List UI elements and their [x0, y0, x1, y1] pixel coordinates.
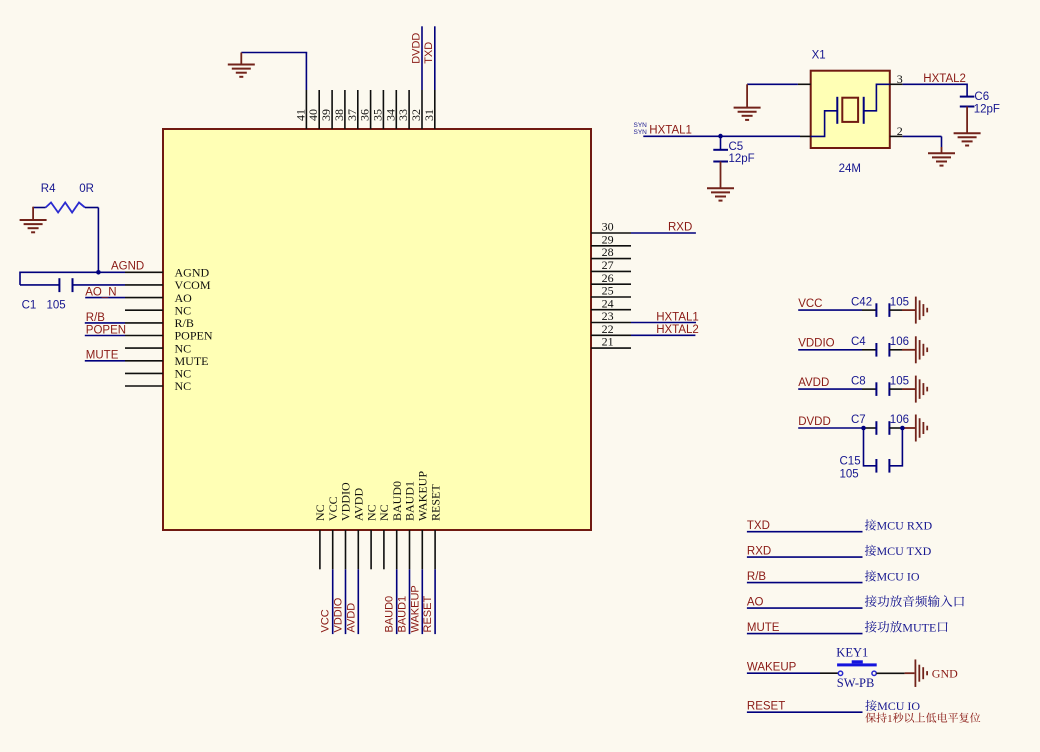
IC U1 body	[163, 129, 591, 530]
wire VCC (bottom)	[332, 569, 334, 634]
ground (crystal pin 2)	[941, 147, 943, 153]
pin 32 (top)	[421, 90, 423, 129]
svg-text:AO: AO	[747, 596, 764, 608]
pin 41 (top)	[305, 90, 307, 129]
svg-text:31: 31	[422, 109, 436, 121]
svg-text:C8: C8	[851, 375, 866, 387]
wire to C5	[720, 136, 722, 150]
pin VCOM (left)	[125, 284, 163, 286]
junction AGND	[96, 270, 101, 275]
svg-text:35: 35	[370, 109, 384, 121]
ground (C5)	[720, 162, 722, 189]
svg-text:C4: C4	[851, 336, 866, 348]
wire pin 2 to ground	[903, 135, 942, 137]
pin WAKEUP (bottom)	[421, 530, 423, 569]
pin 1 stub (crystal top-left)	[798, 83, 811, 85]
capacitor C15	[875, 459, 877, 473]
junction HXTAL1/C5	[718, 134, 723, 139]
wire AVDD to C8	[798, 388, 862, 390]
ground (crystal top-left)	[746, 84, 748, 107]
pin 30 (right)	[591, 232, 631, 234]
pin MUTE (left)	[125, 360, 163, 362]
svg-text:105: 105	[890, 296, 909, 308]
wire C1 to VCOM pin	[73, 284, 126, 286]
wire RXD (list)	[747, 556, 863, 558]
pin 21 (right)	[591, 347, 631, 349]
pin BAUD0 (bottom)	[396, 530, 398, 569]
wire C1 left	[20, 284, 59, 286]
pin AVDD (bottom)	[357, 530, 359, 569]
wire R4 left lead	[33, 207, 46, 209]
wire AVDD (bottom)	[357, 569, 359, 634]
svg-text:MUTE: MUTE	[747, 622, 780, 634]
svg-text:C7: C7	[851, 414, 866, 426]
svg-text:WAKEUP: WAKEUP	[409, 585, 421, 632]
svg-text:C5: C5	[729, 141, 744, 153]
svg-text:106: 106	[890, 336, 909, 348]
wire RESET (list)	[747, 711, 863, 713]
pin 29 (right)	[591, 245, 631, 247]
pin 25 (right)	[591, 296, 631, 298]
ground (R4)	[32, 207, 34, 220]
annotation for AO	[865, 595, 877, 607]
annotation for TXD	[865, 519, 876, 530]
svg-text:DVDD: DVDD	[798, 416, 831, 428]
svg-text:MCU RXD: MCU RXD	[877, 519, 933, 533]
pin NC (left)	[125, 385, 163, 387]
pin 28 (right)	[591, 258, 631, 260]
wire pin32 DVDD	[421, 26, 423, 90]
pin 22 (right)	[591, 334, 631, 336]
svg-text:3: 3	[897, 72, 903, 86]
annotation for MUTE	[865, 621, 877, 633]
pin 26 (right)	[591, 283, 631, 285]
capacitor C5	[713, 149, 728, 151]
svg-text:AVDD: AVDD	[798, 377, 829, 389]
wire MUTE	[85, 360, 125, 362]
wire AGND net	[20, 271, 125, 273]
svg-text:33: 33	[396, 109, 410, 121]
pin 34 (top)	[395, 90, 397, 129]
crystal X1 body	[811, 71, 890, 148]
svg-text:MCU IO: MCU IO	[877, 699, 920, 713]
svg-text:106: 106	[890, 414, 909, 426]
wire WAKEUP (bottom)	[421, 569, 423, 634]
pin NC (bottom)	[319, 530, 321, 569]
wire switch to GND	[876, 672, 904, 674]
svg-text:12pF: 12pF	[974, 104, 1000, 116]
pin 39 (top)	[331, 90, 333, 129]
svg-text:R4: R4	[41, 183, 56, 195]
svg-text:NC: NC	[175, 379, 192, 393]
pin 33 (top)	[408, 90, 410, 129]
svg-text:MCU TXD: MCU TXD	[877, 544, 932, 558]
svg-text:105: 105	[47, 300, 66, 312]
wire RXD	[631, 232, 696, 234]
svg-text:AO_N: AO_N	[85, 287, 116, 299]
pin 31 (top)	[434, 90, 436, 129]
svg-text:HXTAL2: HXTAL2	[656, 324, 699, 336]
wire MUTE (list)	[747, 633, 863, 635]
wire POPEN	[85, 335, 125, 337]
wire VCC to C42	[798, 309, 862, 311]
svg-text:12pF: 12pF	[729, 153, 755, 165]
power ground (C7)	[902, 427, 916, 429]
svg-text:VDDIO: VDDIO	[798, 338, 834, 350]
svg-text:MCU IO: MCU IO	[877, 569, 920, 583]
pin 36 (top)	[370, 90, 372, 129]
ground (C6)	[966, 107, 968, 134]
note hold 1 second	[865, 713, 875, 723]
svg-text:VDDIO: VDDIO	[333, 597, 345, 632]
wire RESET (bottom)	[434, 569, 436, 634]
wire TXD (list)	[747, 531, 863, 533]
wire BAUD0 (bottom)	[396, 569, 398, 634]
pin 38 (top)	[344, 90, 346, 129]
svg-text:2: 2	[897, 124, 903, 138]
pin VDDIO (bottom)	[345, 530, 347, 569]
pin R/B (left)	[125, 322, 163, 324]
svg-text:RESET: RESET	[422, 596, 434, 633]
wire AGND down to C1	[19, 272, 21, 285]
pin AO (left)	[125, 297, 163, 299]
svg-text:C15: C15	[840, 456, 861, 468]
svg-text:HXTAL1: HXTAL1	[649, 125, 692, 137]
annotation for RXD	[865, 545, 876, 556]
capacitor C6	[960, 96, 975, 98]
svg-text:KEY1: KEY1	[836, 645, 868, 659]
pin 24 (right)	[591, 309, 631, 311]
power ground (C42)	[902, 309, 916, 311]
wire R/B	[85, 322, 125, 324]
svg-text:SW-PB: SW-PB	[837, 676, 875, 690]
wire VDDIO (bottom)	[345, 569, 347, 634]
pin VCC (bottom)	[332, 530, 334, 569]
wire R4 right lead down to AGND	[85, 207, 98, 209]
wire HXTAL1 (pin 23)	[631, 322, 696, 324]
pin BAUD1 (bottom)	[409, 530, 411, 569]
svg-text:TXD: TXD	[747, 520, 770, 532]
wire C15 right branch	[889, 428, 902, 466]
svg-text:AVDD: AVDD	[345, 603, 357, 633]
wire HXTAL1 net (crystal)	[643, 135, 800, 137]
crystal X1 element	[842, 98, 858, 122]
pin 27 (right)	[591, 270, 631, 272]
svg-text:MUTE: MUTE	[902, 620, 936, 634]
pin 23 (right)	[591, 322, 631, 324]
svg-text:24M: 24M	[839, 163, 861, 175]
wire AO_N	[85, 297, 125, 299]
svg-text:21: 21	[602, 335, 614, 349]
wire pin41 to ground	[305, 53, 307, 91]
power ground (C8)	[902, 388, 916, 390]
pin RESET (bottom)	[434, 530, 436, 569]
pin POPEN (left)	[125, 335, 163, 337]
pin 2 stub (crystal)	[890, 135, 903, 137]
pin AGND (left)	[125, 271, 163, 273]
svg-text:POPEN: POPEN	[86, 325, 126, 337]
resistor R4	[46, 203, 85, 213]
svg-text:X1: X1	[812, 50, 826, 62]
svg-text:C1: C1	[22, 300, 37, 312]
svg-text:RESET: RESET	[428, 484, 442, 521]
pin NC (bottom)	[383, 530, 385, 569]
capacitor C8	[862, 388, 876, 390]
svg-text:38: 38	[332, 109, 346, 121]
junction DVDD/C15 left	[861, 426, 866, 431]
svg-text:SYN: SYN	[634, 129, 648, 136]
wire BAUD1 (bottom)	[409, 569, 411, 634]
svg-text:40: 40	[306, 109, 320, 121]
svg-text:R/B: R/B	[747, 571, 767, 583]
pin stub crystal bottom-left	[800, 135, 811, 137]
svg-text:AGND: AGND	[111, 261, 144, 273]
svg-text:WAKEUP: WAKEUP	[747, 661, 797, 673]
annotation for R/B	[865, 570, 876, 581]
wire AO (list)	[747, 607, 863, 609]
wire WAKEUP to switch	[747, 672, 820, 674]
power ground (C4)	[902, 349, 916, 351]
svg-text:VCC: VCC	[320, 609, 332, 632]
pin 35 (top)	[382, 90, 384, 129]
svg-text:105: 105	[890, 375, 909, 387]
ground (top-left, pin 41)	[240, 53, 242, 65]
capacitor C4	[862, 349, 876, 351]
annotation for RESET	[865, 700, 876, 711]
svg-text:C42: C42	[851, 296, 872, 308]
wire DVDD to C7	[798, 427, 862, 429]
svg-text:R/B: R/B	[86, 312, 106, 324]
pin 37 (top)	[357, 90, 359, 129]
pin NC (left)	[125, 372, 163, 374]
pin 3 stub (crystal)	[890, 83, 903, 85]
svg-text:MUTE: MUTE	[86, 350, 119, 362]
power ground GND (switch)	[914, 659, 916, 687]
pin NC (left)	[125, 347, 163, 349]
svg-text:VCC: VCC	[798, 298, 822, 310]
wire HXTAL2 net	[903, 83, 968, 85]
svg-text:RXD: RXD	[747, 545, 771, 557]
svg-text:DVDD: DVDD	[410, 33, 422, 64]
wire crystal gnd (top-left)	[747, 83, 798, 85]
svg-text:105: 105	[840, 468, 859, 480]
capacitor C42	[862, 309, 876, 311]
wire HXTAL2 (pin 22)	[631, 334, 695, 336]
svg-text:RXD: RXD	[668, 222, 692, 234]
pin 40 (top)	[318, 90, 320, 129]
svg-text:GND: GND	[932, 667, 958, 681]
pin NC (left)	[125, 309, 163, 311]
svg-text:C6: C6	[974, 91, 989, 103]
wire to C6	[966, 84, 968, 97]
svg-text:HXTAL1: HXTAL1	[656, 311, 699, 323]
svg-text:HXTAL2: HXTAL2	[923, 73, 966, 85]
junction DVDD/C15 right	[900, 426, 905, 431]
capacitor C7	[862, 427, 876, 429]
svg-text:BAUD1: BAUD1	[397, 596, 409, 633]
wire R/B (list)	[747, 582, 863, 584]
wire C15 left branch	[864, 428, 877, 466]
wire pin31 TXD	[434, 26, 436, 90]
svg-text:RESET: RESET	[747, 700, 785, 712]
wire VDDIO to C4	[798, 349, 862, 351]
pin NC (bottom)	[370, 530, 372, 569]
svg-text:TXD: TXD	[423, 42, 435, 64]
svg-text:0R: 0R	[79, 183, 94, 195]
svg-text:1: 1	[887, 713, 893, 725]
svg-text:BAUD0: BAUD0	[384, 596, 396, 633]
capacitor C1	[58, 278, 60, 292]
